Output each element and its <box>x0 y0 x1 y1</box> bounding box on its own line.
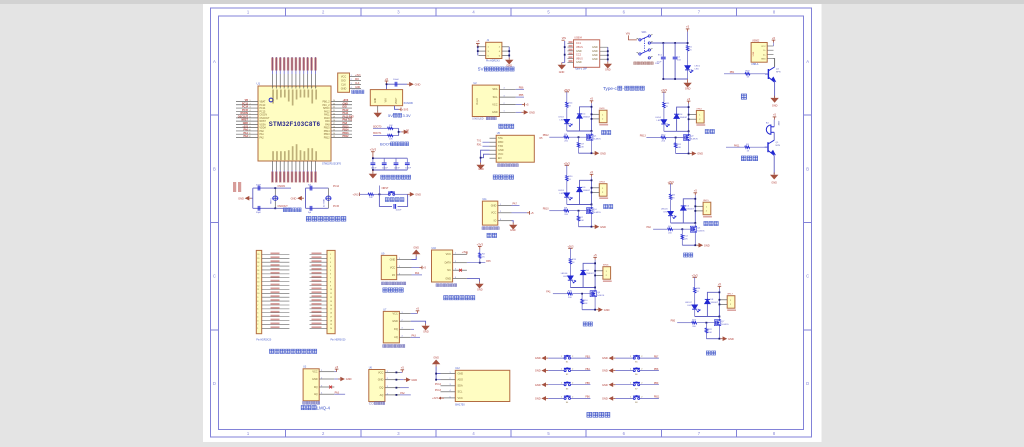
resistor R18 1K <box>745 73 750 75</box>
svg-text:STM32F103C8T6: STM32F103C8T6 <box>322 163 342 166</box>
svg-text:GND: GND <box>602 383 608 387</box>
svg-text:GND: GND <box>492 111 498 114</box>
svg-text:VCC: VCC <box>761 46 766 48</box>
svg-text:PB14: PB14 <box>324 131 330 133</box>
svg-text:8: 8 <box>330 281 331 283</box>
capacitor 104nF #2 <box>383 158 385 162</box>
svg-text:PA5: PA5 <box>486 260 491 263</box>
svg-text:PB10: PB10 <box>543 208 550 211</box>
ground <box>604 62 612 69</box>
wire GND down <box>377 106 379 111</box>
svg-text:PB15: PB15 <box>324 128 330 130</box>
svg-text:+3V3: +3V3 <box>477 242 484 246</box>
resistor R13 1K <box>569 259 571 264</box>
crystal Y2 32.768K <box>327 188 329 208</box>
svg-text:PA0: PA0 <box>260 130 265 133</box>
svg-text:PA7: PA7 <box>513 202 518 205</box>
resistor R14 1K <box>566 102 568 107</box>
svg-text:10: 10 <box>330 289 332 291</box>
svg-text:SW1: SW1 <box>642 32 648 34</box>
svg-text:VCC: VCC <box>498 153 503 156</box>
svg-text:PC14: PC14 <box>435 383 442 386</box>
resistor R3 1K <box>669 194 671 200</box>
svg-text:8: 8 <box>250 123 251 125</box>
svg-text:19: 19 <box>257 258 259 260</box>
label capacitive soil small <box>381 282 405 285</box>
svg-text:DQ: DQ <box>380 387 384 390</box>
svg-text:+5: +5 <box>686 25 690 29</box>
svg-text:XH16: XH16 <box>603 265 609 267</box>
svg-text:16: 16 <box>333 126 335 128</box>
svg-text:+5: +5 <box>423 266 427 270</box>
svg-text:VIN: VIN <box>386 98 388 102</box>
ground up <box>432 360 440 367</box>
svg-text:104nF: 104nF <box>405 167 412 169</box>
wire gnd branch <box>481 150 490 162</box>
svg-text:2: 2 <box>351 79 352 81</box>
svg-text:4: 4 <box>387 393 388 395</box>
svg-text:24: 24 <box>333 100 335 102</box>
diode D4 1N4007 <box>674 114 679 118</box>
LED LED2 <box>566 108 568 120</box>
connector XH17 <box>727 296 735 309</box>
ground <box>402 130 409 135</box>
svg-text:RX1: RX1 <box>477 143 482 146</box>
node gate <box>706 322 708 324</box>
resistor R4 200 gate <box>653 228 668 230</box>
chip filter capacitors <box>369 148 412 180</box>
svg-text:7: 7 <box>300 86 302 87</box>
svg-text:GND: GND <box>604 308 610 312</box>
svg-text:GND: GND <box>477 288 483 291</box>
ground <box>562 62 565 64</box>
label bluetooth module <box>493 175 513 179</box>
label soil moisture <box>383 288 403 292</box>
svg-text:1: 1 <box>455 253 456 255</box>
connector XH11 <box>599 110 607 123</box>
mcu U1 marker circle <box>269 98 273 102</box>
svg-text:15: 15 <box>257 274 259 276</box>
svg-text:10: 10 <box>257 293 259 295</box>
capacitor 104nF #3 <box>395 158 397 162</box>
svg-text:OLED: OLED <box>476 98 479 105</box>
svg-text:VCC: VCC <box>458 397 463 400</box>
wire <box>252 197 253 199</box>
wire source to gnd <box>579 152 592 154</box>
svg-text:GND: GND <box>535 397 541 401</box>
label display <box>499 124 514 128</box>
svg-text:S-MOS: S-MOS <box>721 324 729 326</box>
driver circuit PB0 <box>671 273 736 355</box>
transistor Q4 NPN <box>765 67 775 82</box>
label PB13 chinese <box>705 129 714 133</box>
mosfet Q3 <box>690 226 696 233</box>
wire diode loop <box>570 287 595 289</box>
svg-text:11: 11 <box>257 289 259 291</box>
wire source to gnd <box>706 338 719 340</box>
svg-text:4: 4 <box>257 316 258 318</box>
mcu U1 top pin net labels <box>271 58 273 71</box>
svg-text:9pf: 9pf <box>308 184 311 186</box>
svg-text:+5: +5 <box>594 253 598 257</box>
wire GND <box>467 279 480 282</box>
svg-text:+5: +5 <box>335 365 339 369</box>
svg-text:19: 19 <box>333 117 335 119</box>
svg-text:1N4007: 1N4007 <box>586 273 594 275</box>
svg-text:PC14: PC14 <box>260 108 267 110</box>
resistor R17 10K pulldown <box>578 137 580 142</box>
resistor R6 200 gate <box>549 136 564 138</box>
wire right bus <box>508 47 510 58</box>
button S3 row <box>535 382 591 390</box>
resistor R9 200 gate <box>549 210 564 212</box>
mosfet Q7 <box>714 319 720 326</box>
node OSCIN <box>274 187 276 189</box>
svg-text:NRST: NRST <box>382 187 389 190</box>
resistor R15 200 gate <box>553 293 568 295</box>
wire diode loop <box>695 316 720 318</box>
connector XH16 <box>603 267 611 280</box>
svg-text:12: 12 <box>249 136 251 138</box>
label MCU minimal system <box>306 217 346 222</box>
driver circuit PB10 <box>543 161 613 229</box>
wire diode loop <box>567 130 592 132</box>
switch SW1 self-locking <box>603 25 701 91</box>
label mcu experiment pins <box>269 349 316 353</box>
svg-text:4: 4 <box>321 393 322 395</box>
svg-text:NPN: NPN <box>776 145 781 147</box>
svg-text:10: 10 <box>312 86 314 88</box>
mcu U1 lower-left net labels <box>233 182 236 192</box>
switch pin stubs <box>637 34 653 57</box>
svg-text:+3V3: +3V3 <box>692 273 699 277</box>
label reset circuit <box>385 198 404 202</box>
svg-text:1: 1 <box>504 111 505 113</box>
svg-text:GND: GND <box>605 69 611 72</box>
svg-text:VBUS: VBUS <box>576 57 583 60</box>
svg-text:PB6: PB6 <box>519 86 524 89</box>
svg-text:XH15: XH15 <box>703 200 709 202</box>
svg-text:1N4007: 1N4007 <box>710 302 718 304</box>
svg-text:9: 9 <box>330 285 331 287</box>
resistor 10K <box>368 193 373 195</box>
svg-text:XH17: XH17 <box>727 294 733 296</box>
diode D6 1N4007 <box>577 187 582 191</box>
svg-text:+3V3: +3V3 <box>567 244 574 248</box>
svg-text:GND: GND <box>529 110 535 114</box>
svg-text:USB04: USB04 <box>574 37 582 40</box>
power +5 <box>411 312 418 314</box>
svg-text:1: 1 <box>399 258 400 260</box>
connector P1 download port <box>338 73 364 94</box>
ground <box>593 224 600 229</box>
svg-text:EN: EN <box>498 157 502 160</box>
svg-text:1: 1 <box>330 254 331 256</box>
svg-text:U1: U1 <box>257 82 261 86</box>
ground <box>509 223 517 230</box>
resistor 10K <box>384 135 399 137</box>
svg-text:7: 7 <box>330 278 331 280</box>
wire diode loop <box>567 204 592 206</box>
ground <box>408 192 415 197</box>
resistor 10K <box>384 127 399 129</box>
resistor R2 1K <box>479 258 481 262</box>
svg-text:6: 6 <box>330 274 331 276</box>
svg-text:RXD: RXD <box>498 141 503 144</box>
svg-text:PC13: PC13 <box>260 105 267 107</box>
svg-text:SDA: SDA <box>458 385 463 388</box>
svg-text:GND: GND <box>433 356 439 359</box>
svg-text:AQ: AQ <box>314 393 318 396</box>
LED LED3 <box>566 181 568 193</box>
svg-text:VIN: VIN <box>626 32 630 35</box>
svg-text:ADO: ADO <box>458 379 463 382</box>
wire emitter <box>774 82 776 98</box>
label methane sensor small <box>303 401 320 404</box>
svg-text:+5: +5 <box>687 97 691 101</box>
svg-text:9: 9 <box>257 297 258 299</box>
diode D4 1N4007 <box>577 114 582 118</box>
svg-text:GND: GND <box>341 87 347 90</box>
svg-text:1: 1 <box>449 372 450 374</box>
svg-text:VCC: VCC <box>341 76 346 79</box>
svg-text:PB9: PB9 <box>654 383 659 385</box>
svg-text:A: A <box>213 59 216 64</box>
wire gnd up <box>412 257 417 260</box>
svg-text:+5V3: +5V3 <box>564 161 571 165</box>
ground <box>297 196 304 201</box>
svg-text:PB0: PB0 <box>671 320 676 323</box>
svg-text:B: B <box>213 166 216 171</box>
independent keys <box>535 356 660 417</box>
power +5 <box>516 104 522 106</box>
label water level sensor small <box>482 227 499 230</box>
svg-text:PA2: PA2 <box>260 136 265 139</box>
svg-text:10K: 10K <box>580 220 584 222</box>
svg-text:Type-c: Type-c <box>603 86 617 91</box>
crystal circuit 8MHz <box>238 184 301 214</box>
svg-text:GND: GND <box>559 71 565 74</box>
svg-text:VSSA: VSSA <box>260 123 267 126</box>
svg-text:GND: GND <box>576 50 582 53</box>
net PA7 <box>512 204 520 206</box>
svg-text:VDDA: VDDA <box>260 127 267 130</box>
svg-text:17: 17 <box>330 316 332 318</box>
capacitor 104nF <box>394 204 396 209</box>
power +3V3 <box>399 108 402 112</box>
connector XH15 <box>703 202 711 215</box>
wire PB6 <box>516 88 524 90</box>
svg-text:17: 17 <box>257 266 259 268</box>
wire DATA <box>467 262 485 264</box>
svg-text:6: 6 <box>250 117 251 119</box>
svg-text:2: 2 <box>504 103 505 105</box>
label crystal circuit <box>283 208 301 212</box>
svg-text:D-: D- <box>763 50 766 52</box>
svg-text:PC15: PC15 <box>260 111 267 113</box>
svg-text:104nF: 104nF <box>371 167 378 169</box>
svg-text:3: 3 <box>504 96 505 98</box>
wire join <box>398 128 400 135</box>
power +5 <box>334 371 336 373</box>
resistor R11 10K pulldown <box>675 138 677 143</box>
svg-text:16: 16 <box>257 270 259 272</box>
svg-text:CC1: CC1 <box>576 42 582 45</box>
svg-text:PB7: PB7 <box>654 356 659 358</box>
node gate <box>581 293 583 295</box>
svg-text:11: 11 <box>330 293 332 295</box>
svg-text:LED4: LED4 <box>655 117 661 119</box>
wire rail top <box>372 155 374 159</box>
power +5 <box>590 174 594 176</box>
svg-text:CLK: CLK <box>355 83 360 85</box>
svg-text:18: 18 <box>257 262 259 264</box>
resistor R17 200 gate <box>677 322 692 324</box>
svg-text:10K: 10K <box>369 197 373 199</box>
svg-text:S-MOS: S-MOS <box>691 139 699 141</box>
svg-text:10K: 10K <box>389 139 393 141</box>
svg-text:XH12: XH12 <box>696 109 702 111</box>
svg-text:Type-c 16P: Type-c 16P <box>575 68 587 71</box>
power +5 <box>686 29 690 32</box>
svg-text:GND: GND <box>697 152 703 156</box>
svg-text:14: 14 <box>333 133 335 135</box>
svg-text:15: 15 <box>333 130 335 132</box>
power +5 <box>687 101 691 103</box>
svg-text:3.3V: 3.3V <box>403 113 412 118</box>
node gate <box>675 137 677 139</box>
label PB10 chinese <box>604 204 613 208</box>
net AQ <box>334 393 345 395</box>
node gate <box>578 210 580 212</box>
mcu U1 bottom pin net labels <box>271 172 273 183</box>
reset circuit <box>353 186 422 212</box>
power +5 <box>772 40 776 42</box>
svg-text:S-MOS: S-MOS <box>594 138 602 140</box>
wire power <box>694 277 696 287</box>
svg-text:8: 8 <box>304 86 306 87</box>
wire source to gnd <box>682 244 695 246</box>
svg-text:2: 2 <box>500 211 501 213</box>
svg-text:10uF: 10uF <box>657 62 663 64</box>
svg-text:GND: GND <box>498 149 504 152</box>
svg-text:10K: 10K <box>677 147 681 149</box>
ground <box>372 170 374 172</box>
svg-text:XH11: XH11 <box>599 108 605 110</box>
power +5 <box>512 212 528 214</box>
svg-text:+3V3: +3V3 <box>353 193 360 196</box>
bluetooth module U5 <box>476 132 543 179</box>
wire collector <box>773 132 775 140</box>
svg-text:4: 4 <box>330 266 331 268</box>
svg-text:GND: GND <box>238 196 244 200</box>
svg-text:4: 4 <box>455 277 456 279</box>
label extra <box>706 351 715 355</box>
svg-text:5: 5 <box>449 396 450 398</box>
svg-text:PA1: PA1 <box>546 291 551 294</box>
power +5 <box>590 101 594 103</box>
power +5 <box>400 371 402 373</box>
svg-text:U11: U11 <box>482 198 487 201</box>
svg-text:USB02: USB02 <box>752 40 760 42</box>
connector USB04 Type-C <box>558 37 612 74</box>
connector XH13 <box>599 184 607 197</box>
svg-text:GND: GND <box>600 225 606 229</box>
svg-text:LED3: LED3 <box>558 190 564 192</box>
svg-text:15: 15 <box>330 309 332 311</box>
svg-text:GND: GND <box>407 129 409 134</box>
svg-text:+3V3: +3V3 <box>668 180 675 184</box>
svg-text:XH13: XH13 <box>599 182 605 184</box>
LED1 <box>687 51 689 66</box>
svg-text:3: 3 <box>321 385 322 387</box>
svg-text:NPN: NPN <box>776 71 781 73</box>
svg-text:2: 2 <box>455 261 456 263</box>
svg-text:GND: GND <box>411 378 417 382</box>
svg-text:9: 9 <box>250 126 251 128</box>
svg-text:GND: GND <box>772 105 778 108</box>
svg-text:GND: GND <box>602 397 608 401</box>
svg-text:AQ: AQ <box>394 336 398 339</box>
svg-text:GND: GND <box>378 379 384 382</box>
svg-text:VCC: VCC <box>393 312 398 315</box>
label switch <box>634 62 653 65</box>
driver circuit PB13 <box>640 88 715 156</box>
svg-text:VCC: VCC <box>312 371 317 374</box>
svg-text:GND: GND <box>415 82 421 86</box>
svg-text:+5: +5 <box>525 103 529 107</box>
ground <box>421 324 429 331</box>
svg-text:XC6206: XC6206 <box>404 101 414 105</box>
svg-text:C: C <box>213 274 216 279</box>
svg-text:GND: GND <box>535 383 541 387</box>
button S8 row <box>602 396 660 404</box>
button S2 row <box>535 368 591 376</box>
svg-text:GND: GND <box>592 50 598 53</box>
mcu U1 left pins <box>236 99 270 139</box>
svg-text:LED: LED <box>560 193 565 195</box>
resistor R1 1K <box>687 32 689 46</box>
svg-text:4: 4 <box>288 86 290 87</box>
svg-text:CC2: CC2 <box>576 54 582 57</box>
svg-text:9pf: 9pf <box>308 212 311 214</box>
svg-text:5V: 5V <box>478 67 485 72</box>
ground <box>400 379 404 381</box>
svg-text:2: 2 <box>250 103 251 105</box>
svg-text:1N4007: 1N4007 <box>583 190 591 192</box>
svg-text:20: 20 <box>330 328 332 330</box>
svg-text:6: 6 <box>296 86 298 87</box>
capacitor 104nF #4 <box>406 158 408 162</box>
svg-text:+5: +5 <box>590 170 594 174</box>
node OSCOUT <box>274 207 276 209</box>
wire drain <box>694 222 696 224</box>
ground <box>334 378 338 380</box>
pin header J2 20pin <box>269 250 346 353</box>
svg-text:+5: +5 <box>530 211 534 215</box>
svg-text:CLK: CLK <box>341 83 346 86</box>
svg-text:VBUS: VBUS <box>576 46 583 49</box>
wire source to gnd <box>676 153 689 155</box>
CO2 sensor U6 <box>369 366 417 406</box>
svg-text:+5: +5 <box>590 97 594 101</box>
button S5 row <box>602 356 659 364</box>
svg-text:PA2: PA2 <box>244 135 249 138</box>
svg-text:Pin HDR3X20: Pin HDR3X20 <box>331 339 347 342</box>
wire power <box>663 92 665 102</box>
ground <box>687 79 689 81</box>
label buzzer <box>741 156 757 161</box>
